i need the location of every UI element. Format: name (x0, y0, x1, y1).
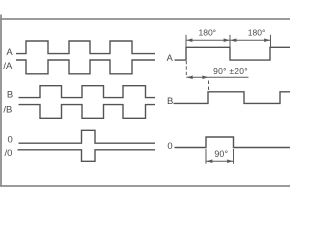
svg-text:90° ±20°: 90° ±20° (213, 66, 248, 76)
svg-text:A: A (6, 47, 13, 58)
svg-text:180°: 180° (248, 27, 266, 37)
svg-text:B: B (7, 90, 13, 101)
svg-text:/B: /B (3, 104, 12, 115)
svg-text:0: 0 (8, 134, 13, 145)
svg-text:/A: /A (3, 61, 13, 72)
svg-text:180°: 180° (199, 27, 217, 37)
svg-text:90°: 90° (214, 149, 228, 159)
svg-text:/0: /0 (5, 148, 13, 159)
svg-text:0: 0 (167, 141, 172, 152)
svg-text:B: B (167, 96, 173, 107)
svg-text:A: A (167, 53, 174, 64)
